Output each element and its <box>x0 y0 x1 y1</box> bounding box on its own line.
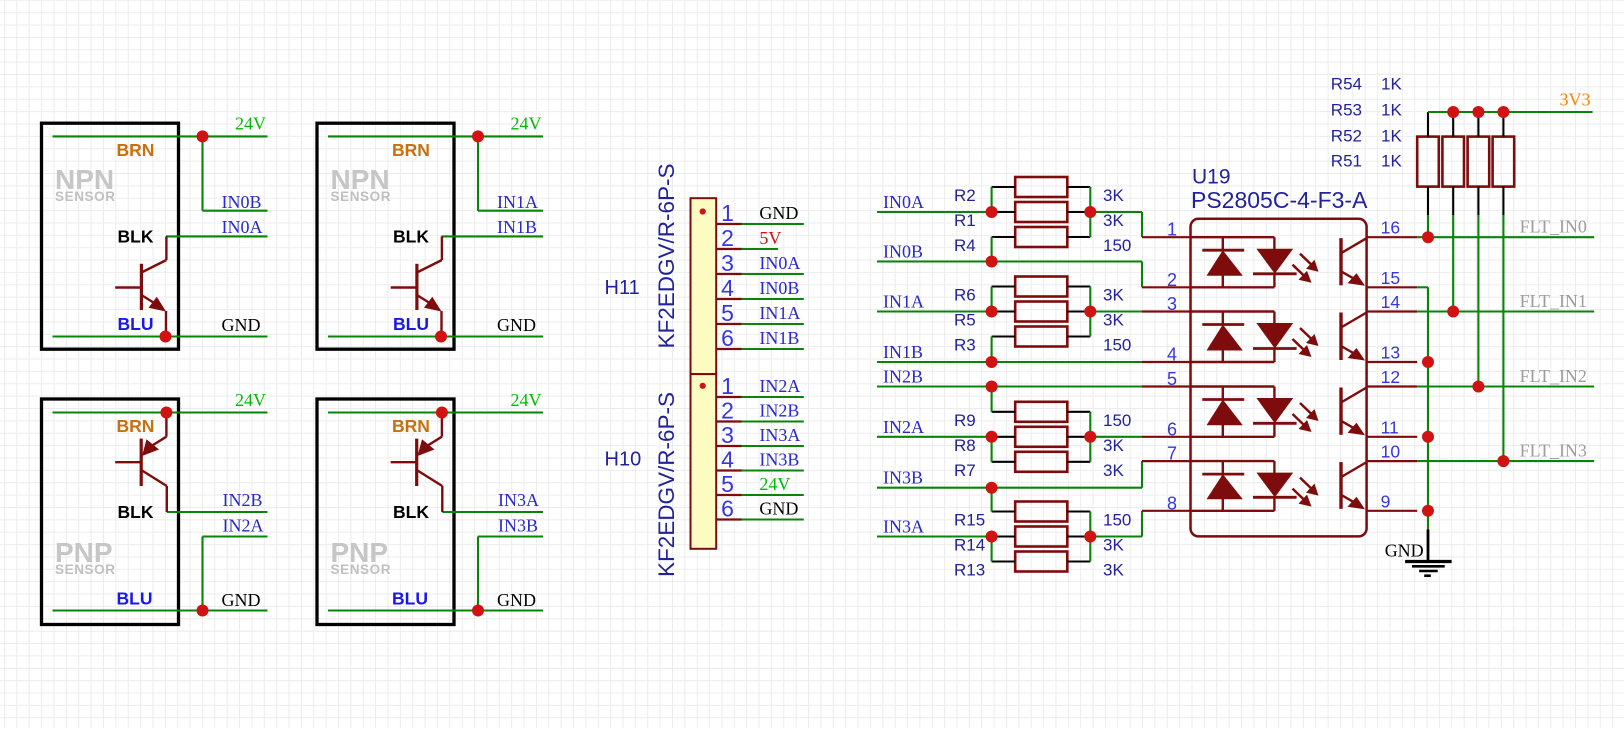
svg-text:IN3B: IN3B <box>883 468 923 488</box>
svg-text:IN3A: IN3A <box>883 517 924 537</box>
svg-text:IN2B: IN2B <box>223 490 263 510</box>
svg-text:3: 3 <box>721 422 734 448</box>
svg-text:KF2EDGV/R-6P-S: KF2EDGV/R-6P-S <box>654 392 679 577</box>
svg-text:4: 4 <box>721 446 734 472</box>
svg-text:IN3A: IN3A <box>759 425 800 445</box>
svg-text:BLU: BLU <box>393 314 429 334</box>
svg-text:BLK: BLK <box>118 502 154 522</box>
svg-text:5: 5 <box>721 471 734 497</box>
svg-text:R6: R6 <box>954 286 976 305</box>
svg-text:5V: 5V <box>759 228 781 248</box>
svg-text:BRN: BRN <box>392 140 430 160</box>
svg-text:150: 150 <box>1103 411 1131 430</box>
svg-text:IN1A: IN1A <box>759 303 800 323</box>
svg-text:R53: R53 <box>1331 101 1362 120</box>
svg-text:IN3B: IN3B <box>498 516 538 536</box>
svg-text:4: 4 <box>721 275 734 301</box>
svg-text:IN0A: IN0A <box>883 192 924 212</box>
svg-text:GND: GND <box>1385 541 1424 561</box>
svg-text:24V: 24V <box>235 114 266 134</box>
svg-text:GND: GND <box>759 499 798 519</box>
svg-text:SENSOR: SENSOR <box>331 562 392 577</box>
svg-text:R9: R9 <box>954 411 976 430</box>
svg-text:2: 2 <box>721 397 734 423</box>
svg-text:BRN: BRN <box>117 140 155 160</box>
svg-text:5: 5 <box>721 300 734 326</box>
svg-text:1: 1 <box>721 373 734 399</box>
svg-text:24V: 24V <box>511 114 542 134</box>
svg-text:3K: 3K <box>1103 561 1124 580</box>
svg-text:150: 150 <box>1103 236 1131 255</box>
svg-text:6: 6 <box>721 495 734 521</box>
svg-text:FLT_IN3: FLT_IN3 <box>1520 441 1587 461</box>
svg-text:IN0B: IN0B <box>759 278 799 298</box>
svg-text:R8: R8 <box>954 436 976 455</box>
svg-text:IN2B: IN2B <box>759 401 799 421</box>
svg-text:BLK: BLK <box>393 502 429 522</box>
svg-text:IN2A: IN2A <box>759 376 800 396</box>
svg-text:24V: 24V <box>759 474 790 494</box>
svg-text:3K: 3K <box>1103 436 1124 455</box>
svg-text:3K: 3K <box>1103 211 1124 230</box>
svg-text:3K: 3K <box>1103 186 1124 205</box>
svg-text:14: 14 <box>1381 292 1401 312</box>
svg-text:SENSOR: SENSOR <box>55 189 116 204</box>
svg-text:5: 5 <box>1167 369 1177 389</box>
svg-text:R15: R15 <box>954 511 985 530</box>
svg-text:IN1B: IN1B <box>883 342 923 362</box>
svg-text:2: 2 <box>1167 270 1177 290</box>
svg-text:BLU: BLU <box>117 589 153 609</box>
svg-text:3K: 3K <box>1103 461 1124 480</box>
svg-text:16: 16 <box>1381 218 1400 238</box>
svg-text:1K: 1K <box>1381 127 1402 146</box>
svg-text:4: 4 <box>1167 345 1177 365</box>
svg-text:U19: U19 <box>1192 166 1231 189</box>
svg-text:150: 150 <box>1103 511 1131 530</box>
svg-text:SENSOR: SENSOR <box>55 562 116 577</box>
svg-text:IN2A: IN2A <box>883 417 924 437</box>
svg-text:IN2A: IN2A <box>223 516 264 536</box>
svg-text:R52: R52 <box>1331 127 1362 146</box>
svg-text:10: 10 <box>1381 442 1401 462</box>
svg-text:GND: GND <box>759 203 798 223</box>
svg-text:1K: 1K <box>1381 75 1402 94</box>
svg-text:8: 8 <box>1167 493 1177 513</box>
svg-text:IN1B: IN1B <box>759 328 799 348</box>
svg-text:H11: H11 <box>605 277 640 299</box>
svg-text:R7: R7 <box>954 461 976 480</box>
svg-text:R5: R5 <box>954 311 976 330</box>
svg-text:GND: GND <box>497 315 536 335</box>
svg-text:IN3B: IN3B <box>759 450 799 470</box>
svg-text:24V: 24V <box>235 390 266 410</box>
svg-text:KF2EDGV/R-6P-S: KF2EDGV/R-6P-S <box>654 163 679 348</box>
svg-text:IN2B: IN2B <box>883 367 923 387</box>
svg-text:IN1A: IN1A <box>497 192 538 212</box>
svg-text:6: 6 <box>1167 419 1177 439</box>
svg-text:3K: 3K <box>1103 286 1124 305</box>
svg-text:9: 9 <box>1381 491 1391 511</box>
svg-text:BLK: BLK <box>118 227 154 247</box>
svg-text:FLT_IN1: FLT_IN1 <box>1520 291 1587 311</box>
svg-text:IN3A: IN3A <box>498 490 539 510</box>
svg-text:12: 12 <box>1381 367 1400 387</box>
svg-text:3: 3 <box>721 250 734 276</box>
svg-text:IN0A: IN0A <box>759 253 800 273</box>
svg-text:FLT_IN0: FLT_IN0 <box>1520 217 1587 237</box>
svg-text:FLT_IN2: FLT_IN2 <box>1520 366 1587 386</box>
svg-text:1: 1 <box>1167 220 1177 240</box>
svg-text:R1: R1 <box>954 211 976 230</box>
svg-text:3V3: 3V3 <box>1560 90 1591 110</box>
svg-text:BRN: BRN <box>117 416 155 436</box>
svg-text:R2: R2 <box>954 186 976 205</box>
svg-text:150: 150 <box>1103 336 1131 355</box>
svg-text:3K: 3K <box>1103 311 1124 330</box>
svg-text:BLU: BLU <box>392 589 428 609</box>
svg-text:R14: R14 <box>954 536 985 555</box>
svg-text:3: 3 <box>1167 294 1177 314</box>
svg-text:IN1A: IN1A <box>883 292 924 312</box>
svg-text:1: 1 <box>721 200 734 226</box>
svg-text:2: 2 <box>721 225 734 251</box>
svg-text:PS2805C-4-F3-A: PS2805C-4-F3-A <box>1191 187 1368 213</box>
svg-text:IN1B: IN1B <box>497 217 537 237</box>
svg-text:BLK: BLK <box>393 227 429 247</box>
svg-text:7: 7 <box>1167 444 1177 464</box>
svg-text:13: 13 <box>1381 343 1400 363</box>
svg-text:R51: R51 <box>1331 152 1362 171</box>
svg-text:3K: 3K <box>1103 536 1124 555</box>
svg-text:IN0B: IN0B <box>883 242 923 262</box>
svg-text:SENSOR: SENSOR <box>331 189 392 204</box>
svg-text:1K: 1K <box>1381 152 1402 171</box>
svg-text:BRN: BRN <box>392 416 430 436</box>
svg-text:GND: GND <box>222 315 261 335</box>
svg-text:IN0A: IN0A <box>222 217 263 237</box>
svg-text:R54: R54 <box>1331 75 1362 94</box>
svg-text:R3: R3 <box>954 336 976 355</box>
svg-text:GND: GND <box>497 590 536 610</box>
svg-text:6: 6 <box>721 325 734 351</box>
svg-text:R13: R13 <box>954 561 985 580</box>
svg-text:H10: H10 <box>605 449 642 471</box>
svg-text:15: 15 <box>1381 268 1400 288</box>
svg-text:R4: R4 <box>954 236 976 255</box>
svg-text:BLU: BLU <box>118 314 154 334</box>
svg-text:IN0B: IN0B <box>222 192 262 212</box>
svg-text:11: 11 <box>1381 417 1399 437</box>
svg-text:24V: 24V <box>511 390 542 410</box>
svg-text:GND: GND <box>222 590 261 610</box>
svg-text:1K: 1K <box>1381 101 1402 120</box>
